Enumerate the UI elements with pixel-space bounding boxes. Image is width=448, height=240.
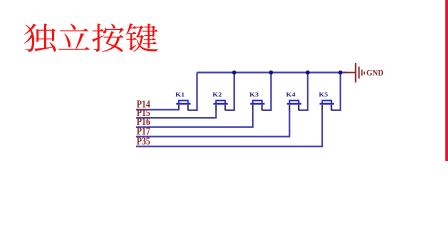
wire: K2 right pin to bus	[225, 73, 234, 111]
wire: K5 right pin to bus	[331, 73, 340, 111]
wire: top bus to GND	[197, 72, 346, 74]
push button K2	[213, 101, 227, 111]
wire: K1 right pin to bus	[188, 73, 197, 111]
push button K3	[250, 101, 264, 111]
svg-text:K5: K5	[319, 91, 329, 98]
junction: K4 riser on bus	[306, 71, 310, 75]
wire: P14 to K1 left pin	[136, 109, 179, 111]
push button K5	[320, 101, 334, 111]
junction: K2 riser on bus	[232, 71, 236, 75]
svg-text:GND: GND	[366, 69, 383, 78]
push button K4	[287, 101, 301, 111]
wire: P16 to K3 left pin	[136, 110, 253, 128]
wire: K3 right pin to bus	[262, 73, 271, 111]
schematic title "独立按键"	[24, 23, 158, 52]
wire: P15 to K2 left pin	[136, 110, 216, 118]
svg-text:K3: K3	[249, 91, 259, 98]
junction: K5 riser on bus	[338, 71, 342, 75]
wire: K4 right pin to bus	[299, 73, 308, 111]
wire: P17 to K4 left pin	[136, 110, 290, 137]
junction: K3 riser on bus	[269, 71, 273, 75]
svg-text:K1: K1	[175, 91, 184, 98]
svg-text:P35: P35	[137, 136, 151, 147]
svg-text:K2: K2	[213, 91, 223, 98]
svg-text:K4: K4	[286, 91, 296, 98]
push button K1	[176, 101, 190, 111]
wire: P35 to K5 left pin	[136, 110, 322, 147]
ground power port	[345, 63, 365, 83]
